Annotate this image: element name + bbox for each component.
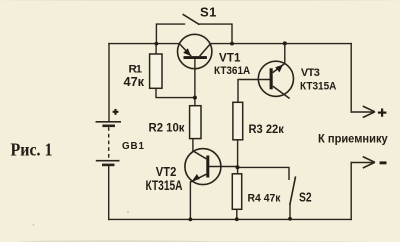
svg-text:VT3: VT3 bbox=[301, 67, 320, 79]
svg-text:КТ315А: КТ315А bbox=[300, 81, 336, 93]
svg-text:VT1: VT1 bbox=[219, 52, 241, 65]
svg-text:VT2: VT2 bbox=[156, 164, 177, 179]
svg-text:S2: S2 bbox=[299, 190, 312, 204]
svg-text:КТ315А: КТ315А bbox=[146, 178, 183, 193]
svg-text:GB1: GB1 bbox=[122, 141, 145, 152]
svg-text:КТ361А: КТ361А bbox=[214, 65, 250, 77]
svg-text:R2 10к: R2 10к bbox=[149, 121, 186, 135]
svg-text:К приемнику: К приемнику bbox=[318, 132, 388, 146]
svg-text:47к: 47к bbox=[124, 74, 145, 89]
svg-text:Рис. 1: Рис. 1 bbox=[11, 140, 53, 160]
svg-text:R4 47к: R4 47к bbox=[248, 193, 281, 205]
svg-text:S1: S1 bbox=[200, 5, 216, 20]
svg-text:R3 22к: R3 22к bbox=[249, 122, 285, 136]
